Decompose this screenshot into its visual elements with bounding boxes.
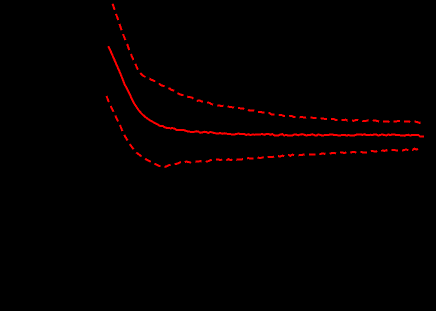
upper confidence band (dashed red) — [112, 0, 424, 123]
estimate curve (solid red) — [108, 46, 424, 137]
lower confidence band (dashed red) — [107, 96, 420, 167]
